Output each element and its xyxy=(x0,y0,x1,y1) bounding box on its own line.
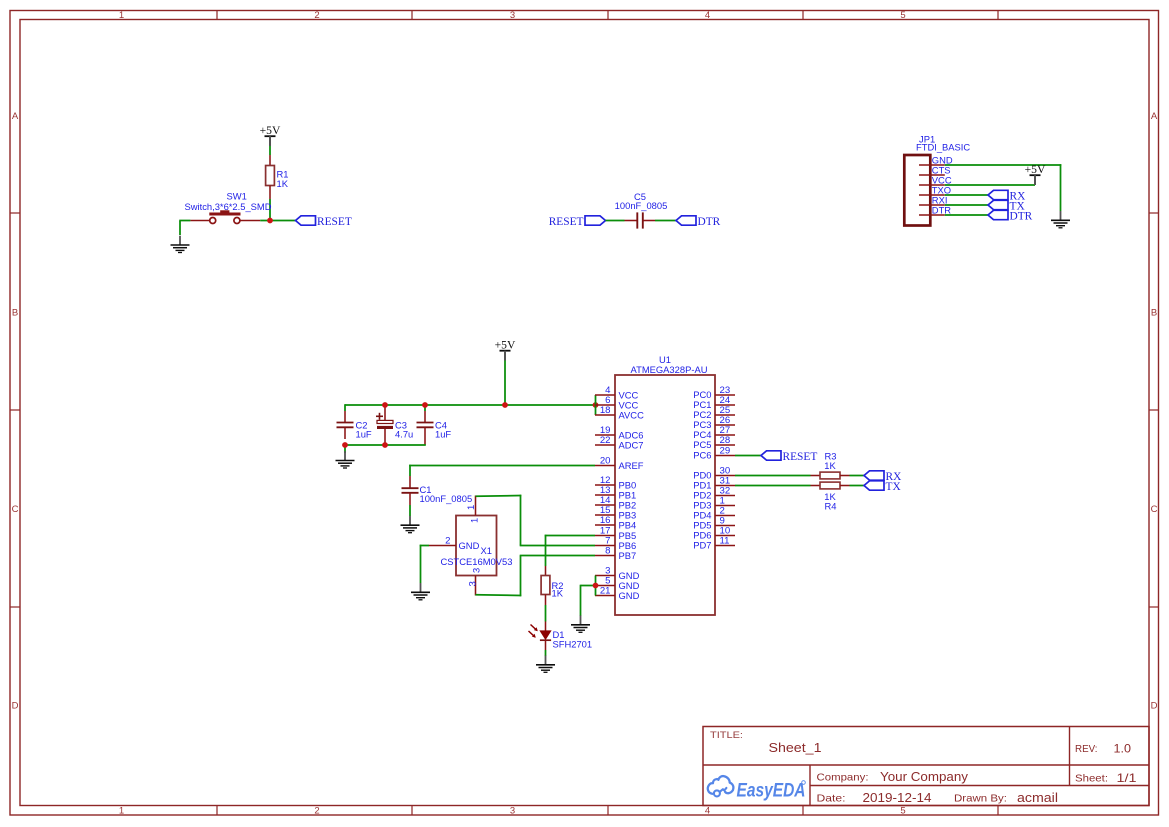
wire rail down to C2 xyxy=(344,404,346,411)
svg-text:C: C xyxy=(12,504,19,515)
U1 pin 11 PD7 xyxy=(693,536,735,551)
U1 pin 21 GND xyxy=(595,586,640,601)
capacitor C2 1uF xyxy=(337,411,372,440)
svg-text:AVCC: AVCC xyxy=(619,409,645,420)
wire PD1 to R4 xyxy=(735,485,811,487)
svg-text:GND: GND xyxy=(619,590,640,601)
ground below D1 xyxy=(536,656,555,673)
U1 pin 23 PC0 xyxy=(693,385,735,400)
wire +5V to R1 xyxy=(269,146,271,155)
ground below C1 xyxy=(401,516,420,533)
capacitor C5 100nF_0805 xyxy=(615,191,668,228)
resistor R1 xyxy=(266,155,289,199)
net flag RESET at U1 xyxy=(761,451,817,463)
U1 pin 31 PD1 xyxy=(693,476,735,491)
wire R1 to RESET node xyxy=(269,199,271,221)
switch SW1 xyxy=(184,191,271,224)
svg-text:DTR: DTR xyxy=(1010,210,1033,222)
svg-text:21: 21 xyxy=(600,586,611,597)
U1 pin 18 AVCC xyxy=(595,405,644,420)
net flag RESET at C5 xyxy=(549,216,606,228)
svg-text:16: 16 xyxy=(600,515,611,526)
svg-text:20: 20 xyxy=(600,456,611,467)
ground below C2 xyxy=(336,451,355,468)
resistor R2 xyxy=(541,566,564,605)
U1 pin 24 PC1 xyxy=(693,395,735,410)
U1 pin 22 ADC7 xyxy=(595,435,644,450)
svg-text:DTR: DTR xyxy=(932,204,951,215)
photodiode D1 SFH2701 xyxy=(529,622,593,651)
U1 pin 16 PB4 xyxy=(595,515,636,530)
svg-text:SFH2701: SFH2701 xyxy=(553,639,593,650)
U1 pin 4 VCC xyxy=(595,385,639,400)
svg-text:100nF_0805: 100nF_0805 xyxy=(420,493,473,504)
wire C1 to ground xyxy=(409,505,411,516)
U1 pin 19 ADC6 xyxy=(595,425,644,440)
svg-text:3: 3 xyxy=(510,806,515,817)
U1 pin 13 PB1 xyxy=(595,485,636,500)
power flag +5V at U1 xyxy=(495,339,516,361)
U1 pin 17 PB5 xyxy=(595,526,636,541)
wire JP1 RXI to TX flag xyxy=(945,204,988,206)
U1 pin 25 PC2 xyxy=(693,405,735,420)
EasyEDA logo xyxy=(708,776,806,801)
svg-text:Sheet_1: Sheet_1 xyxy=(769,740,822,755)
svg-text:1uF: 1uF xyxy=(435,429,451,440)
svg-text:X1: X1 xyxy=(481,545,492,556)
svg-text:PB4: PB4 xyxy=(619,519,637,530)
junction rail VCC xyxy=(593,402,599,408)
junction rail C4 xyxy=(422,402,428,408)
svg-text:4: 4 xyxy=(705,806,710,817)
wire X1 pin1 to PB6 xyxy=(476,495,596,546)
wire R2 to D1 xyxy=(545,605,547,622)
ground below U1 xyxy=(571,616,590,633)
svg-text:DTR: DTR xyxy=(698,216,721,228)
svg-text:PC5: PC5 xyxy=(693,439,711,450)
net flag DTR at JP1 xyxy=(988,210,1033,222)
capacitor C3 4.7u polarized xyxy=(376,405,413,445)
resistor R4 xyxy=(811,482,850,512)
svg-text:4.7u: 4.7u xyxy=(395,429,413,440)
wire RESET flag to C5 xyxy=(606,220,625,222)
svg-text:CSTCE16M0V53: CSTCE16M0V53 xyxy=(441,556,513,567)
svg-text:FTDI_BASIC: FTDI_BASIC xyxy=(916,142,970,153)
title block xyxy=(703,727,1149,806)
svg-text:RESET: RESET xyxy=(783,451,818,463)
svg-text:28: 28 xyxy=(720,435,731,446)
svg-text:2: 2 xyxy=(314,10,319,21)
svg-text:1: 1 xyxy=(469,518,480,523)
svg-text:+5V: +5V xyxy=(1025,163,1046,176)
svg-text:Your Company: Your Company xyxy=(880,770,969,784)
wire R3 to RX flag xyxy=(850,475,865,477)
svg-text:acmail: acmail xyxy=(1017,790,1058,805)
svg-text:TITLE:: TITLE: xyxy=(710,730,743,740)
svg-text:PC6: PC6 xyxy=(693,450,711,461)
wire D1 to ground xyxy=(545,650,547,656)
svg-text:Date:: Date: xyxy=(817,793,846,805)
U1 pin 7 PB6 xyxy=(595,536,636,551)
wire X1 pin2 to ground xyxy=(420,545,429,583)
wire PC6 to RESET flag xyxy=(735,455,761,457)
U1 pin 28 PC5 xyxy=(693,435,735,450)
net flag TX at R4 xyxy=(864,481,901,493)
U1 pin 20 AREF xyxy=(595,456,644,471)
crystal X1 CSTCE16M0V53 xyxy=(429,496,512,596)
svg-text:TX: TX xyxy=(886,481,902,493)
svg-text:11: 11 xyxy=(720,536,730,547)
net flag TX at JP1 xyxy=(988,200,1025,212)
svg-text:22: 22 xyxy=(600,435,611,446)
svg-text:1/1: 1/1 xyxy=(1117,771,1137,785)
svg-text:4: 4 xyxy=(705,10,710,21)
wire GND bracket U1 xyxy=(581,576,596,617)
wire ground stub JP1 xyxy=(1060,210,1062,211)
svg-text:2019-12-14: 2019-12-14 xyxy=(863,790,932,805)
wire JP1 TXO to RX flag xyxy=(945,194,988,196)
resistor R3 xyxy=(811,451,850,479)
junction U1 GND xyxy=(593,583,599,589)
svg-text:B: B xyxy=(12,308,18,319)
power flag +5V at R1 xyxy=(260,124,281,146)
svg-text:5: 5 xyxy=(900,10,905,21)
U1 pin 30 PD0 xyxy=(693,466,735,481)
IC U1 ATMEGA328P-AU xyxy=(615,354,715,615)
svg-text:Sheet:: Sheet: xyxy=(1075,774,1108,785)
wire AREF to C1 xyxy=(409,465,595,476)
svg-text:PB7: PB7 xyxy=(619,550,637,561)
svg-text:A: A xyxy=(12,111,19,122)
svg-text:1.0: 1.0 xyxy=(1114,742,1132,756)
wire R4 to TX flag xyxy=(850,485,865,487)
wire C2 to ground xyxy=(344,444,346,453)
svg-text:ADC7: ADC7 xyxy=(619,439,644,450)
svg-text:2: 2 xyxy=(445,536,450,547)
svg-text:3: 3 xyxy=(471,568,482,573)
svg-text:EasyEDA: EasyEDA xyxy=(737,780,806,802)
U1 pin 2 PD4 xyxy=(693,506,735,521)
svg-text:3: 3 xyxy=(468,581,479,586)
wire +5V rail xyxy=(345,404,596,406)
U1 pin 9 PD5 xyxy=(693,516,735,531)
wire SW1 to RESET node xyxy=(260,220,295,222)
svg-text:5: 5 xyxy=(900,806,905,817)
svg-text:GND: GND xyxy=(459,540,480,551)
U1 pin 6 VCC xyxy=(595,395,639,410)
wire PB5 to R2 xyxy=(545,535,595,566)
ground at SW1 xyxy=(171,236,190,253)
net flag RX at JP1 xyxy=(988,190,1026,202)
ground at JP1 xyxy=(1051,211,1070,228)
power flag +5V at JP1 xyxy=(1025,163,1046,185)
svg-text:C: C xyxy=(1151,504,1158,515)
svg-text:2: 2 xyxy=(314,806,319,817)
junction bottom C2 xyxy=(342,442,348,448)
U1 pin 27 PC4 xyxy=(693,425,735,440)
svg-text:1: 1 xyxy=(466,505,477,510)
U1 pin 10 PD6 xyxy=(693,526,735,541)
svg-text:1uF: 1uF xyxy=(356,429,372,440)
U1 pin 3 GND xyxy=(595,566,640,581)
svg-text:1K: 1K xyxy=(824,460,836,471)
wire JP1 VCC to +5V xyxy=(945,184,1035,186)
capacitor C1 100nF_0805 xyxy=(402,476,473,505)
wire SW1 to ground xyxy=(179,221,190,236)
svg-text:+5V: +5V xyxy=(495,339,516,352)
svg-text:PD7: PD7 xyxy=(693,540,711,551)
svg-text:A: A xyxy=(1151,111,1158,122)
svg-text:RESET: RESET xyxy=(317,216,352,228)
junction rail +5V xyxy=(502,402,508,408)
ground at X1 xyxy=(411,583,430,600)
svg-text:D: D xyxy=(12,701,19,712)
U1 pin 12 PB0 xyxy=(595,475,636,490)
U1 pin 29 PC6 xyxy=(693,446,735,461)
wire +5V down to rail xyxy=(504,361,506,406)
svg-text:ATMEGA328P-AU: ATMEGA328P-AU xyxy=(631,364,708,375)
U1 pin 8 PB7 xyxy=(595,546,636,561)
svg-text:1K: 1K xyxy=(277,178,289,189)
net flag RX at R3 xyxy=(864,471,902,483)
svg-text:1: 1 xyxy=(119,10,124,21)
svg-text:8: 8 xyxy=(605,546,610,557)
svg-text:29: 29 xyxy=(720,446,731,457)
U1 pin 5 GND xyxy=(595,576,640,591)
wire JP1 DTR to DTR flag xyxy=(945,214,988,216)
svg-text:18: 18 xyxy=(600,405,611,416)
svg-text:+5V: +5V xyxy=(260,124,281,137)
U1 pin 26 PC3 xyxy=(693,415,735,430)
net flag RESET at SW1 xyxy=(296,216,352,228)
junction RESET node xyxy=(267,218,273,224)
connector JP1 FTDI_BASIC xyxy=(904,134,970,226)
wire C5 to DTR flag xyxy=(655,220,676,222)
junction rail C3 xyxy=(382,402,388,408)
svg-text:3: 3 xyxy=(510,10,515,21)
net flag DTR at C5 xyxy=(676,216,721,228)
svg-text:D: D xyxy=(1151,701,1158,712)
U1 pin 1 PD3 xyxy=(693,496,735,511)
svg-text:REV:: REV: xyxy=(1075,744,1098,755)
wire PD0 to R3 xyxy=(735,475,811,477)
wire VCC bracket xyxy=(595,395,597,415)
svg-text:Switch,3*6*2.5_SMD: Switch,3*6*2.5_SMD xyxy=(184,201,271,212)
capacitor C4 1uF xyxy=(417,404,452,445)
svg-text:Company:: Company: xyxy=(817,772,869,784)
wire X1 pin3 to PB7 xyxy=(476,556,596,597)
svg-text:Drawn By:: Drawn By: xyxy=(954,793,1007,805)
wire bottom cap rail xyxy=(345,444,426,446)
U1 pin 14 PB2 xyxy=(595,495,636,510)
svg-text:AREF: AREF xyxy=(619,460,644,471)
junction bottom C3 xyxy=(382,442,388,448)
svg-text:R4: R4 xyxy=(825,501,837,512)
U1 pin 15 PB3 xyxy=(595,505,636,520)
wire JP1 GND to ground xyxy=(945,164,1062,210)
U1 pin 32 PD2 xyxy=(693,486,735,501)
svg-text:1: 1 xyxy=(119,806,124,817)
svg-text:RESET: RESET xyxy=(549,216,584,228)
svg-text:1K: 1K xyxy=(552,588,564,599)
svg-text:B: B xyxy=(1151,308,1157,319)
svg-text:100nF_0805: 100nF_0805 xyxy=(615,200,668,211)
